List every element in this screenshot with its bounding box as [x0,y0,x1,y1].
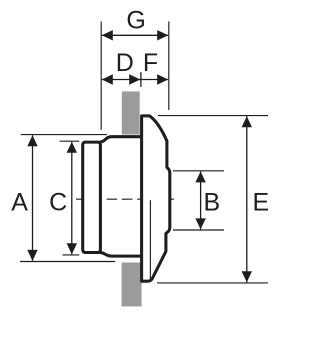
svg-text:D: D [116,49,134,77]
dimension E bottom extension line [157,282,268,284]
dimension E down arrowhead [242,271,252,282]
dimension D right arrowhead [129,74,140,84]
dimension C up arrowhead [67,142,77,153]
dimension B top extension line [173,170,224,172]
dimension A down arrowhead [27,250,37,261]
slit edge line on head face [149,200,151,279]
sleeve bottom edge (wire) [100,253,144,257]
panel section bottom (gray bar) [122,263,142,307]
svg-text:B: B [204,188,221,216]
dimension E top extension line [158,115,268,117]
extension line right (boss face, for G and F) [168,22,170,111]
svg-text:G: G [126,7,145,35]
dimension A line [32,135,34,261]
dimension B line [200,171,202,229]
dimension C line [71,142,73,255]
panel section top (gray bar) [122,91,140,134]
D/F boundary tick [140,72,142,87]
dimension D left arrowhead [102,74,113,84]
sleeve top edge (wire) [100,137,144,142]
svg-text:E: E [252,188,269,216]
dimension D/F line [102,79,168,81]
dimension G left arrowhead [102,30,113,40]
dimension G right arrowhead [157,30,168,40]
svg-text:F: F [143,49,158,77]
svg-text:A: A [11,189,28,217]
bushing flange [83,142,101,252]
dimension G line [102,34,168,36]
dimension C down arrowhead [67,243,77,254]
dimension F right arrowhead [157,74,168,84]
dimension C top extension tick [60,140,80,142]
extension line left (flange right face, for G and D) [100,22,102,130]
bushing head [142,116,170,281]
dimension A up arrowhead [27,135,37,146]
dimension C bottom extension tick [63,254,80,256]
dimension A bottom extension line [20,261,115,263]
dimension E line [246,116,248,282]
svg-text:C: C [49,189,67,217]
dimension B bottom extension line [173,229,224,231]
centerline (dashed) [76,198,174,200]
dimension A top extension line [21,134,107,136]
dimension E up arrowhead [242,116,252,127]
dimension B up arrowhead [195,171,205,182]
dimension B down arrowhead [195,218,205,229]
